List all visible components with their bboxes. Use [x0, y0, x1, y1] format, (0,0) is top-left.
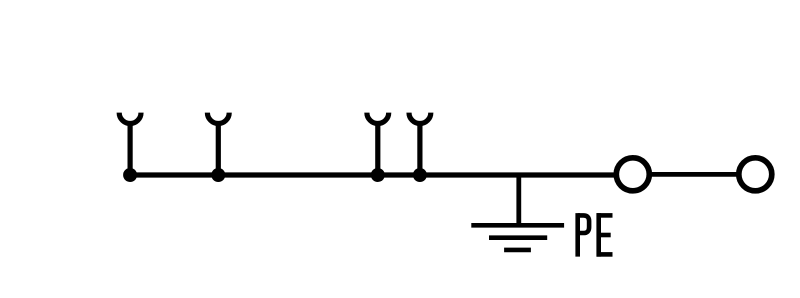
node junction 1 — [123, 168, 137, 182]
clamp terminal 1 — [119, 113, 141, 175]
node junction 3 — [371, 168, 385, 182]
ground PE symbol — [471, 225, 564, 250]
clamp terminal 4 — [409, 113, 431, 175]
wire ground branch — [516, 175, 521, 225]
wire between test sockets — [632, 172, 756, 177]
label PE — [578, 213, 613, 257]
test socket circle 2 — [739, 158, 772, 191]
clamp terminal 2 — [207, 113, 229, 175]
clamp terminal 3 — [367, 113, 389, 175]
node junction 2 — [211, 168, 225, 182]
wire main bus — [126, 172, 615, 177]
test socket circle 1 — [616, 158, 649, 191]
node junction 4 — [413, 168, 427, 182]
